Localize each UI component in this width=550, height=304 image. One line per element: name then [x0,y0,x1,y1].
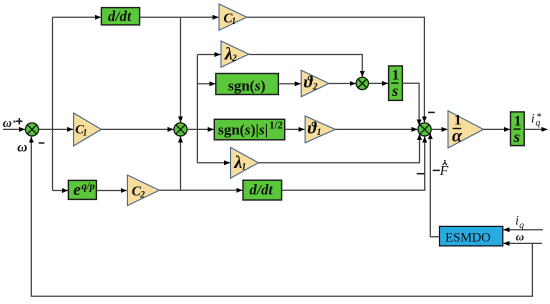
svg-text:q/p: q/p [82,182,95,193]
wire: C1 mid to sum2 [101,128,173,130]
sum junction 4 [418,123,431,136]
op-amp theta2 triangle [301,70,329,96]
wire: d/dt to C1 top [140,16,219,18]
block d/dt (top) [101,8,139,25]
node plus sign at sum1 [16,120,22,122]
wire: C2 into d/dt bottom [159,189,242,191]
svg-text:sgn(s)|s|: sgn(s)|s| [218,123,268,139]
wire: theta1 into sum4 left [335,128,417,130]
sum junction 2 [174,123,187,136]
op-amp 1/alpha triangle [448,111,484,148]
wire: omega* input into sum1 [3,128,25,130]
wire: branch into lambda1 [197,162,230,164]
svg-text:2: 2 [139,190,145,200]
op-amp C2 triangle [127,175,159,206]
wire: lambda1 up into sum4 bottom-left [258,134,419,163]
wire: s branch vertical [196,55,198,163]
svg-text:s: s [513,129,520,146]
svg-text:d/dt: d/dt [108,9,132,25]
block ESMDO [440,226,503,246]
wire: bottom branch into e^(q/p) [53,190,68,192]
svg-text:1/2: 1/2 [269,120,282,131]
svg-text:sgn(s): sgn(s) [228,78,266,94]
svg-text:2: 2 [312,82,318,92]
wire: sum4 into 1/alpha [431,128,447,130]
svg-text:ESMDO: ESMDO [445,229,491,244]
node minus sign at sum1 [39,142,45,144]
wire: theta2 into sum3 [329,83,356,85]
wire: sum1 to C1 mid [39,128,73,130]
op-amp C1 mid triangle [74,113,102,146]
svg-text:i: i [531,111,535,126]
node -Fhat-dot label [433,169,440,171]
block 1/s (right) [511,112,525,146]
wire: sgn|s| into theta1 [285,128,305,130]
block sgn(s) [216,74,279,95]
svg-text:F: F [439,164,449,179]
wire: lambda2 into sum3 top [249,55,362,77]
op-amp lambda2 triangle [221,41,249,67]
wire: branch into sgn(s) [197,83,215,85]
wire: ESMDO output up into sum4 bottom-right [430,133,439,237]
op-amp C1 top triangle [219,4,247,30]
wire: e^(q/p) into C2 [96,190,126,192]
wire: top branch into d/dt [53,16,101,18]
wire: branch down into sum2 top [180,17,182,122]
node minus sign at sum4 bottom [417,173,425,175]
sum junction 3 [356,77,368,89]
svg-text:1: 1 [242,163,247,173]
wire: C1 top long output down into sum4 top [247,17,425,122]
svg-text:q: q [519,221,524,231]
svg-text:d/dt: d/dt [250,182,274,198]
sum junction 1 [25,123,38,136]
svg-text:*: * [12,117,16,127]
wire: 1/alpha into 1/s right [484,128,510,130]
wire: sgn(s) into theta2 [278,83,300,85]
op-amp lambda1 triangle [231,147,259,178]
svg-text:2: 2 [231,54,237,64]
node minus sign at sum4 top [428,111,435,113]
svg-text:*: * [537,112,542,123]
wire: iq* output arrow [524,128,547,130]
wire: omega feedback loop [31,137,532,296]
svg-text:1: 1 [317,128,322,138]
wire: omega input into ESMDO [504,242,542,244]
svg-text:s: s [391,83,398,100]
wire: 1/s output down into sum4 top-left [402,83,419,125]
svg-text:e: e [73,180,81,199]
block sgn(s)|s|^1/2 [214,119,284,140]
wire: sum3 into 1/s top [369,82,388,84]
wire: branch into lambda2 [197,54,220,56]
wire: d/dt bottom up into sum4 bottom [282,137,425,191]
wire: iq input into ESMDO [504,229,543,231]
wire: sum2 output into sgn(s)|s|^1/2 [187,128,214,130]
svg-text:ω: ω [516,232,524,244]
block d/dt (bottom) [243,180,282,200]
svg-text:1: 1 [232,16,237,26]
svg-text:ω: ω [3,116,12,130]
wire: error branch vertical [52,17,54,190]
block 1/s (top) [389,66,403,101]
svg-text:1: 1 [83,127,88,137]
svg-text:ω: ω [17,141,27,156]
svg-text:1: 1 [514,113,522,129]
svg-text:1: 1 [392,67,400,83]
op-amp theta1 triangle [305,116,335,143]
svg-text:α: α [452,125,463,145]
wire: branch up into sum2 bottom [180,137,182,191]
block e^(q/p) [68,180,96,199]
